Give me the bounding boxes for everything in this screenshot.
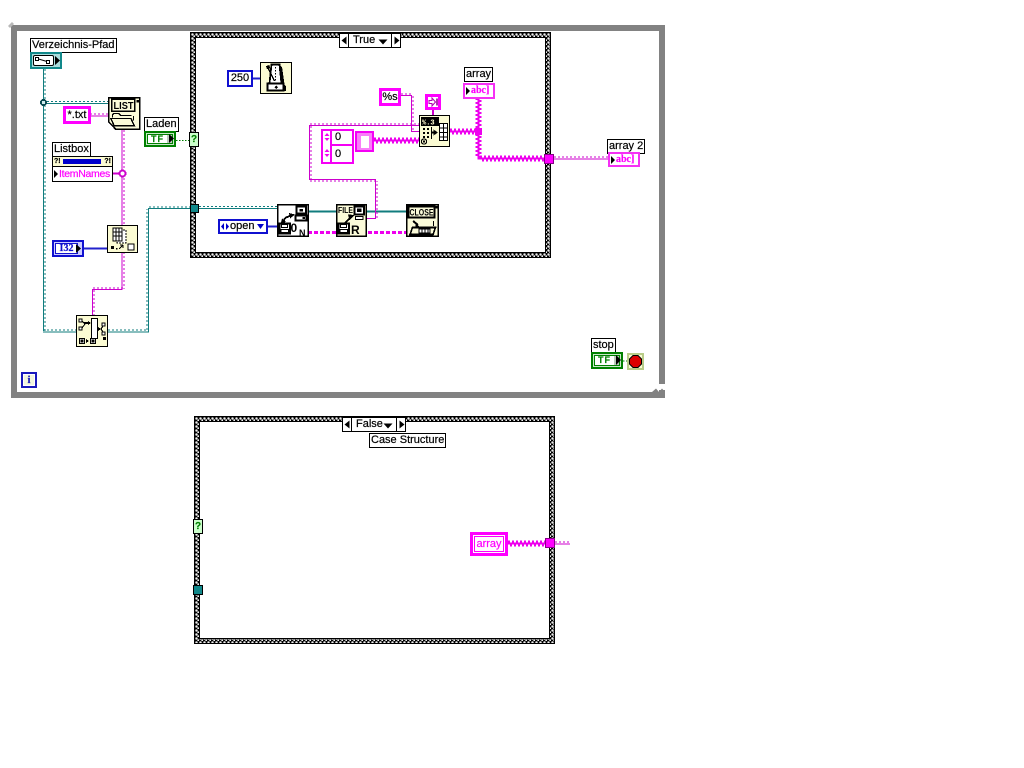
svg-text:CLOSE: CLOSE	[410, 208, 434, 218]
loop iteration terminal i	[21, 372, 37, 388]
label Case Structure	[369, 433, 446, 448]
wire: numeric I32 to Index Array	[84, 248, 107, 250]
array constant element frame (pink)	[355, 131, 374, 152]
numeric constant 250	[227, 70, 253, 87]
wire: refnum Open to Read	[308, 211, 336, 213]
Search 1D Array node	[76, 315, 108, 347]
junction: path branch	[41, 100, 46, 105]
case selector terminal ? (False case)	[193, 519, 203, 534]
array type small constant	[425, 94, 441, 110]
wire: dup path Open-Read-Close dashed	[308, 231, 406, 234]
numeric constant I32	[52, 240, 84, 257]
svg-text:R: R	[351, 223, 360, 237]
wire: string *.txt to LIST	[90, 114, 108, 116]
string constant *.txt	[63, 106, 91, 124]
while loop border	[11, 25, 665, 398]
svg-text:FILE: FILE	[338, 206, 354, 215]
wire: numeric 250 to Wait ms	[252, 78, 260, 80]
wire: boolean Laden to case selector	[176, 140, 190, 142]
indicator array 2 [abc]	[608, 152, 640, 167]
boolean terminal stop TF	[591, 352, 623, 369]
label array 2	[607, 139, 645, 154]
wire: numeric open enum to Open File	[268, 226, 277, 228]
loop condition stop sign	[627, 353, 644, 370]
tunnel: path (False case left)	[193, 585, 203, 595]
boolean terminal Laden TF	[144, 131, 176, 147]
svg-text:%.3: %.3	[422, 120, 435, 128]
svg-text:LIST: LIST	[114, 101, 134, 112]
tunnel: array out (False case right)	[545, 538, 555, 548]
Listbox property node	[52, 142, 91, 157]
wire: path from tunnel to Open File inside case	[199, 207, 277, 209]
enum constant open	[218, 219, 268, 234]
wire: path vertical from Verzeichnis-Pfad terminal	[44, 68, 46, 331]
wire: refnum Read to Close	[367, 211, 406, 213]
wire: %s format to Spreadsheet String To Array	[400, 94, 419, 132]
wire: tunnel to array 2 indicator	[554, 157, 609, 159]
path control terminal	[30, 52, 62, 69]
array constant of strings (0,0)	[321, 129, 354, 164]
label Laden	[144, 117, 179, 132]
string array constant "array" (False case)	[470, 532, 508, 556]
case structure False frame (bottom)	[194, 416, 555, 644]
svg-text:N: N	[299, 228, 306, 237]
wire: array-type small constant down into node	[432, 110, 434, 115]
tunnel: array out (True case right)	[544, 154, 554, 164]
wire: stop TF to loop condition	[623, 360, 627, 362]
wire: ItemNames output to junction	[112, 173, 122, 175]
Index Array node	[107, 225, 138, 253]
wire: Index Array out down to Search input	[93, 252, 125, 316]
LIST file dialog node	[108, 97, 141, 130]
wire: path branch to LIST dialog	[43, 102, 108, 104]
case selector terminal ? (True case)	[189, 132, 199, 147]
wire: false case tunnel out stub	[555, 542, 570, 544]
case selector True	[339, 33, 401, 48]
case structure True frame	[190, 32, 551, 258]
string constant %s	[379, 88, 401, 106]
tunnel: path (True case left)	[190, 204, 199, 213]
wire: string LIST down through Index Array to Search	[122, 130, 124, 226]
junction: string array branch	[120, 171, 126, 177]
svg-text:0: 0	[291, 221, 298, 235]
Open File node	[277, 204, 309, 237]
Read File node	[336, 204, 367, 237]
wire: search output path up to tunnel	[108, 207, 190, 332]
wire: false case array constant to tunnel	[508, 542, 545, 546]
while loop corner chamfer top-left	[5, 19, 21, 35]
while loop corner arrow bottom-right	[648, 382, 668, 399]
label array	[464, 67, 493, 82]
junction: array wire	[475, 128, 482, 135]
Wait Until Next ms Multiple node (metronome)	[260, 62, 292, 94]
wire: string array constant to node	[374, 139, 419, 143]
wire: path to Search node input	[43, 330, 76, 332]
wire: read string routed to Spreadsheet String To Array	[310, 124, 420, 219]
wire: node output to junction to indicator and tunnel	[450, 98, 545, 161]
indicator array [abc]	[463, 83, 495, 99]
Spreadsheet String To Array node	[419, 115, 450, 147]
label stop	[591, 338, 616, 353]
label Verzeichnis-Pfad	[30, 38, 117, 53]
case selector False	[342, 417, 406, 432]
Close File node	[406, 204, 439, 237]
